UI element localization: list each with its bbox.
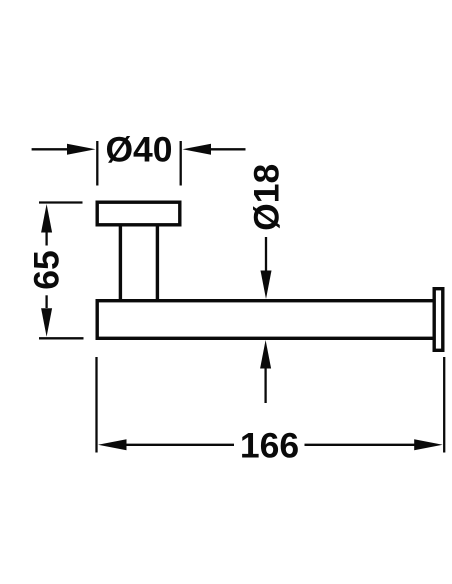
dimension 166: right extension line bbox=[443, 357, 445, 453]
dimension Ø40: right extension line bbox=[180, 141, 182, 186]
svg-text:Ø40: Ø40 bbox=[105, 130, 172, 170]
dimension 166: left extension line bbox=[95, 357, 97, 453]
dimension Ø40: value label bbox=[105, 130, 172, 170]
dimension Ø40: left extension line bbox=[96, 141, 98, 186]
dimension Ø40: right arrow (points left) bbox=[183, 144, 246, 155]
dimension 166: left arrow (points left) bbox=[98, 439, 234, 450]
svg-text:166: 166 bbox=[240, 426, 299, 466]
dimension Ø18: upper arrow (points down to bar top) bbox=[261, 237, 272, 299]
svg-text:65: 65 bbox=[27, 250, 67, 290]
dimension 65: bottom extension tick bbox=[39, 337, 84, 339]
dimension Ø40: left arrow (points right) bbox=[32, 144, 96, 155]
dimension Ø18: value label (rotated) bbox=[247, 164, 287, 231]
dimension Ø18: lower arrow (points up to bar bottom) bbox=[260, 340, 271, 403]
mounting stem between flange and bar bbox=[120, 225, 157, 301]
dimension 166: value label bbox=[240, 426, 299, 466]
wall flange plate (side view, Ø40) bbox=[97, 202, 180, 225]
end cap at right end of bar bbox=[434, 289, 443, 351]
svg-text:Ø18: Ø18 bbox=[247, 164, 287, 231]
dimension 65: lower arrow (points down) bbox=[41, 295, 52, 337]
dimension 65: upper arrow (points up) bbox=[41, 204, 52, 246]
dimension 65: value label (rotated) bbox=[27, 250, 67, 290]
dimension 65: top extension tick bbox=[39, 201, 83, 203]
dimension 166: right arrow (points right) bbox=[305, 439, 443, 450]
horizontal holder bar (Ø18 tube) bbox=[97, 301, 435, 339]
